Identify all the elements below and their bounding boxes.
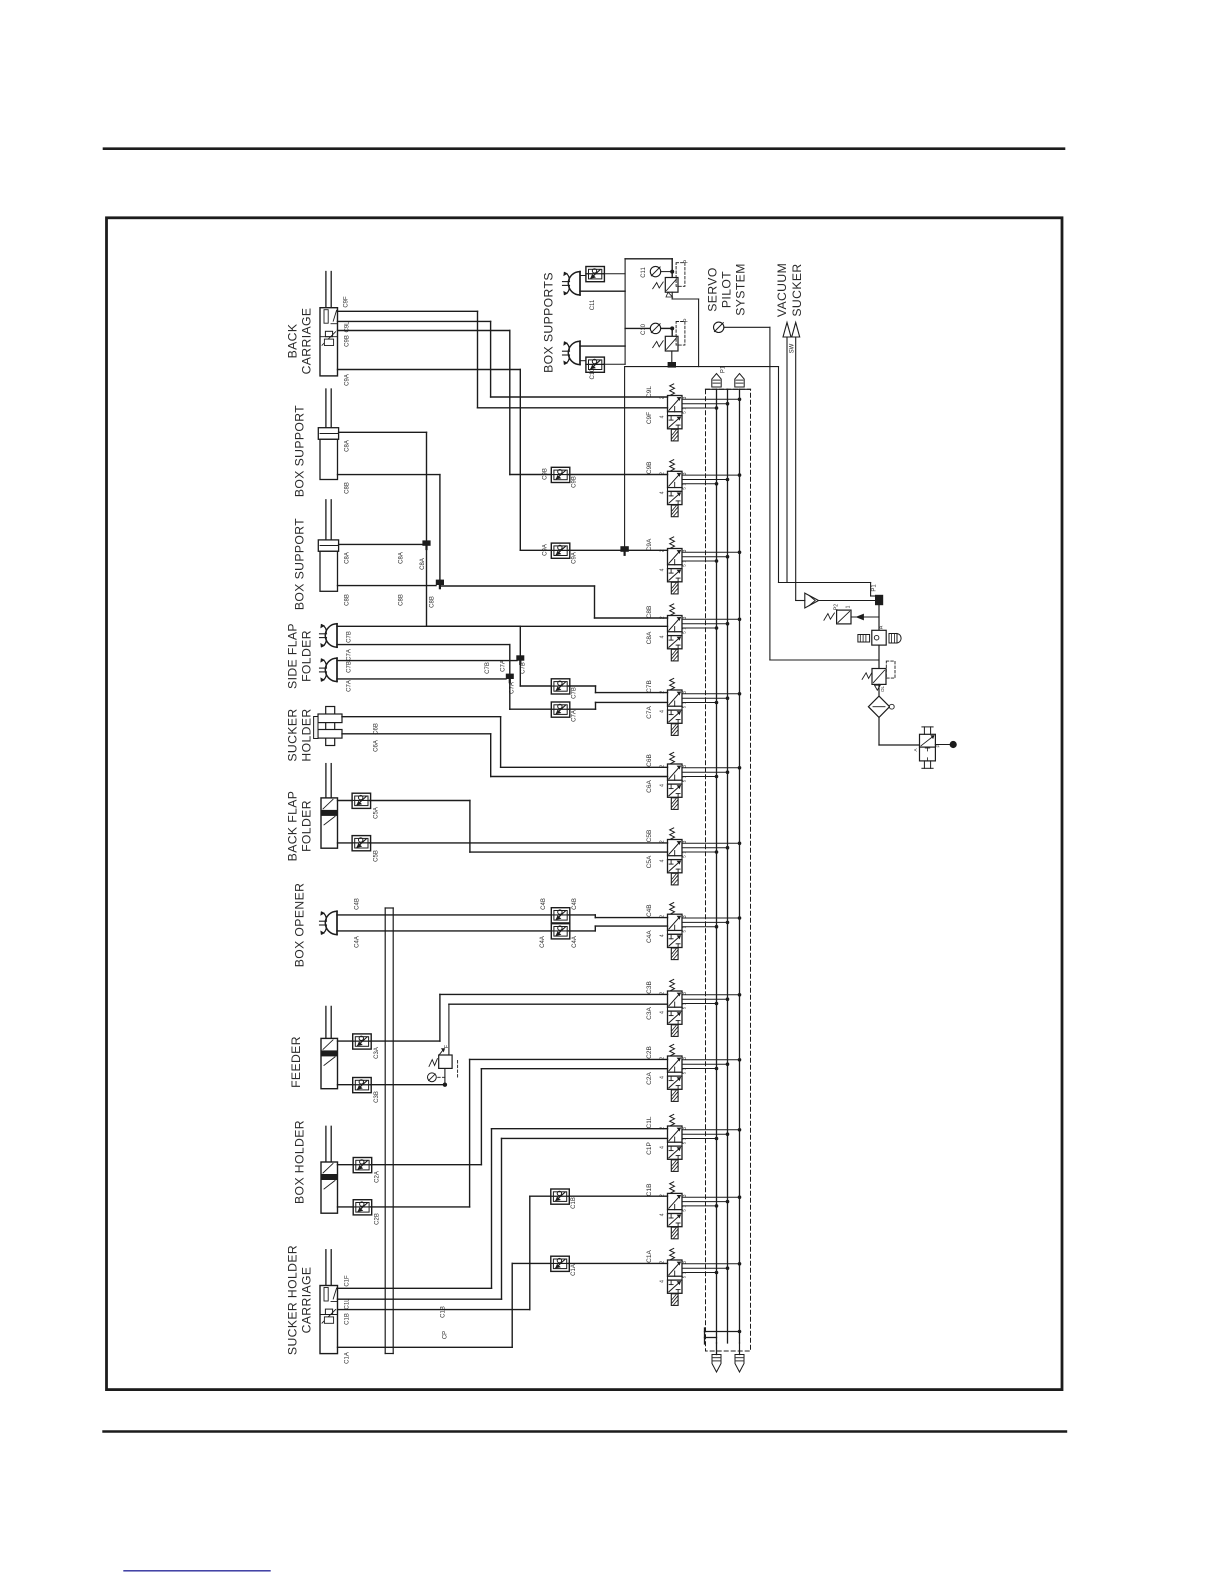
svg-text:CARRIAGE: CARRIAGE <box>300 1267 314 1334</box>
svg-text:4: 4 <box>660 934 666 937</box>
bottom rule <box>104 1430 1067 1432</box>
main line to shutoff valve <box>879 717 920 745</box>
wire C9B to valve <box>569 474 668 476</box>
svg-text:C7A: C7A <box>347 649 353 661</box>
wire C9B <box>338 331 552 475</box>
svg-text:C6B: C6B <box>374 723 380 735</box>
svg-text:C1A: C1A <box>571 1264 577 1276</box>
svg-text:C4B: C4B <box>572 898 578 910</box>
vacuum collector line <box>779 583 876 597</box>
valve C7B/C7A 5/2 <box>646 678 741 735</box>
svg-text:C8B: C8B <box>646 606 653 619</box>
svg-text:C4A: C4A <box>355 936 361 948</box>
svg-text:C3A: C3A <box>374 1047 380 1059</box>
svg-text:C9B: C9B <box>543 468 549 480</box>
wire C3A <box>370 994 667 1041</box>
svg-text:3: 3 <box>682 616 688 619</box>
cylinder C3 feeder <box>321 1006 338 1088</box>
svg-text:4: 4 <box>660 859 666 862</box>
svg-text:P2: P2 <box>834 604 840 610</box>
svg-text:C6A: C6A <box>646 780 653 793</box>
svg-text:C7A: C7A <box>646 706 653 719</box>
svg-text:C3B: C3B <box>646 981 653 994</box>
wire C7B to flow control <box>520 664 551 686</box>
valve C2B/C2A 5/2 <box>646 1044 741 1101</box>
svg-text:A: A <box>913 748 918 751</box>
svg-text:4: 4 <box>660 1146 666 1149</box>
svg-text:C4A: C4A <box>572 936 578 948</box>
wire C9A <box>338 370 552 551</box>
svg-text:4: 4 <box>660 1280 666 1283</box>
wire C4A to valve <box>569 926 668 931</box>
wire C4A <box>337 930 551 932</box>
svg-text:C3A: C3A <box>646 1007 653 1020</box>
svg-text:C2B: C2B <box>646 1046 653 1059</box>
valve C1A 5/2 <box>646 1248 741 1305</box>
wire C7A flowbox to valve <box>569 702 668 709</box>
svg-text:C7B: C7B <box>347 631 353 643</box>
supply terminal <box>935 741 956 748</box>
bus pressure line 2 <box>727 389 729 1343</box>
long rail pipe <box>385 908 393 1354</box>
wire C8B riser <box>338 475 668 618</box>
junction tee pilot manifold <box>668 362 676 368</box>
pilot valve C10 <box>653 318 690 351</box>
svg-text:C9A: C9A <box>543 544 549 556</box>
svg-text:C4B: C4B <box>355 898 361 910</box>
svg-text:3: 3 <box>682 1127 688 1130</box>
valve C1L/C1P 5/2 <box>646 1114 741 1171</box>
svg-text:P: P <box>684 259 690 263</box>
servo pilot line <box>724 327 879 660</box>
svg-text:C9B: C9B <box>646 461 653 474</box>
svg-text:1: 1 <box>846 605 852 608</box>
svg-text:C5B: C5B <box>646 830 653 843</box>
svg-text:4: 4 <box>660 491 666 494</box>
svg-text:C11: C11 <box>641 267 647 278</box>
svg-text:C7A: C7A <box>501 660 507 672</box>
wire C1F <box>338 1129 668 1289</box>
valve C9B 5/2 <box>646 460 741 517</box>
svg-text:SYSTEM: SYSTEM <box>734 263 748 316</box>
svg-text:SUCKER: SUCKER <box>790 263 804 316</box>
svg-text:C3B: C3B <box>374 1091 380 1103</box>
wire C1B <box>338 1196 551 1309</box>
pilot riser top <box>624 259 626 365</box>
svg-text:4: 4 <box>660 1011 666 1014</box>
svg-text:3: 3 <box>682 1194 688 1197</box>
flow control C9B <box>543 467 578 488</box>
wire C7B upper <box>337 626 520 656</box>
junction dot C3B regulator <box>443 1083 447 1087</box>
manifold enclosure (dashed) <box>706 389 751 1351</box>
flow control C9A <box>543 543 578 564</box>
svg-text:C1A: C1A <box>345 1352 351 1364</box>
flow control C10 <box>580 357 625 372</box>
svg-text:VACUUM: VACUUM <box>775 263 789 317</box>
valve C9L/C9F 5/2 <box>646 384 741 441</box>
svg-text:FOLDER: FOLDER <box>300 800 314 852</box>
cylinder C2 box holder <box>321 1126 338 1213</box>
svg-text:OL: OL <box>880 686 885 693</box>
svg-text:BOX OPENER: BOX OPENER <box>293 883 307 968</box>
cylinder C9 back carriage <box>320 272 338 376</box>
svg-text:C9A: C9A <box>572 552 578 564</box>
svg-text:3: 3 <box>682 765 688 768</box>
svg-text:C1P: C1P <box>646 1142 653 1155</box>
pressure regulator F on feeder line <box>428 1044 458 1085</box>
pressure switch branch <box>824 604 879 624</box>
svg-text:C9L: C9L <box>646 386 653 398</box>
wire C11 actuator <box>580 290 625 292</box>
svg-text:C5A: C5A <box>646 855 653 868</box>
wire C6A <box>342 734 668 777</box>
svg-text:C1B: C1B <box>571 1197 577 1209</box>
svg-text:C7B: C7B <box>572 687 578 699</box>
svg-text:C7A: C7A <box>347 680 353 692</box>
svg-text:C8B: C8B <box>345 482 351 494</box>
svg-text:C9B: C9B <box>572 476 578 488</box>
svg-text:C9F: C9F <box>646 412 653 424</box>
svg-text:4: 4 <box>660 415 666 418</box>
main line to regulator <box>878 645 880 668</box>
svg-text:SUCKER HOLDER: SUCKER HOLDER <box>286 1245 300 1355</box>
svg-text:3: 3 <box>682 915 688 918</box>
svg-text:FOLDER: FOLDER <box>300 630 314 682</box>
wire C1A to valve <box>568 1262 667 1264</box>
svg-text:C8A: C8A <box>398 552 404 564</box>
junction tee C7A <box>506 674 514 679</box>
flow control C11 <box>580 267 625 282</box>
flow control C5A <box>338 793 380 819</box>
svg-text:4: 4 <box>660 1213 666 1216</box>
svg-text:BOX SUPPORT: BOX SUPPORT <box>293 405 307 497</box>
svg-text:4: 4 <box>660 784 666 787</box>
svg-text:C9B: C9B <box>345 335 351 347</box>
svg-text:CP: CP <box>443 1331 449 1339</box>
pressure regulator <box>862 661 895 692</box>
wire C2B <box>371 1059 668 1207</box>
svg-text:C5A: C5A <box>374 807 380 819</box>
flow control C2A <box>338 1158 381 1183</box>
svg-text:4: 4 <box>660 710 666 713</box>
cylinder C8 box support upper <box>318 389 338 480</box>
svg-text:C6B: C6B <box>646 754 653 767</box>
footer blue link line <box>124 1570 270 1572</box>
svg-text:C9F: C9F <box>344 296 350 308</box>
svg-text:C2A: C2A <box>646 1072 653 1085</box>
flow control C4B <box>551 908 570 923</box>
svg-text:C8B: C8B <box>345 594 351 606</box>
wire C7A to flow control <box>510 682 552 709</box>
wire C3B regulator to valve <box>449 1004 668 1055</box>
svg-text:FEEDER: FEEDER <box>289 1036 303 1088</box>
svg-text:C2A: C2A <box>375 1171 381 1183</box>
svg-text:C4B: C4B <box>541 898 547 910</box>
pilot line to C9A valve <box>624 367 626 547</box>
exhaust muffler left <box>712 1355 721 1373</box>
wire C5A <box>370 801 668 853</box>
vacuum arrow SW <box>783 323 791 583</box>
flow control C3A <box>338 1034 381 1059</box>
svg-text:C9A: C9A <box>646 538 653 551</box>
svg-text:C6A: C6A <box>374 740 380 752</box>
wire C4B to valve <box>569 915 668 918</box>
bus pressure line 1 <box>716 389 718 1343</box>
svg-text:3: 3 <box>682 1261 688 1264</box>
wire C4B <box>337 914 551 916</box>
flow control C3B <box>338 1078 381 1103</box>
wire C10 feed <box>625 328 672 336</box>
svg-text:C8A: C8A <box>646 631 653 644</box>
svg-text:C11: C11 <box>590 299 596 310</box>
wire C10 actuator <box>580 345 625 347</box>
valve C5B/C5A 5/2 <box>646 828 741 885</box>
svg-text:C1L: C1L <box>646 1116 653 1128</box>
wire C9L <box>338 321 668 397</box>
servo pilot port symbol <box>714 322 724 332</box>
svg-text:C7B: C7B <box>347 661 353 673</box>
shutoff valve 3/2 <box>913 727 941 768</box>
svg-text:SW: SW <box>790 343 796 353</box>
cylinder C8 box support lower <box>318 500 338 592</box>
cylinder C1 carriage <box>320 1250 338 1354</box>
valve C9A 5/2 <box>646 537 741 594</box>
bus bottom manifold ties <box>704 1328 706 1344</box>
pilot valve C11 <box>653 259 690 297</box>
svg-text:PILOT: PILOT <box>720 271 734 308</box>
wire C6B <box>342 717 668 768</box>
svg-text:C1B: C1B <box>646 1184 653 1197</box>
wire C5B <box>370 842 668 844</box>
svg-text:C1B: C1B <box>345 1313 351 1325</box>
pilot manifold drop <box>778 367 780 583</box>
rotary actuator C11 <box>563 272 581 295</box>
svg-text:C4A: C4A <box>646 930 653 943</box>
wire C7A upper <box>337 645 510 675</box>
svg-text:C2B: C2B <box>375 1213 381 1225</box>
wire C7B lower <box>337 660 517 662</box>
junction tee P1 main <box>875 595 883 605</box>
lubricator FRL unit <box>858 625 901 645</box>
svg-text:C8B: C8B <box>398 594 404 606</box>
bus pressure line 3 <box>739 389 741 1343</box>
svg-text:4: 4 <box>660 635 666 638</box>
svg-text:C7B: C7B <box>646 680 653 693</box>
main supply line <box>878 605 880 630</box>
svg-text:BACK FLAP: BACK FLAP <box>286 791 300 862</box>
svg-text:C7A: C7A <box>572 710 578 722</box>
svg-text:C4A: C4A <box>540 936 546 948</box>
svg-text:C5B: C5B <box>374 850 380 862</box>
svg-text:SIDE FLAP: SIDE FLAP <box>286 623 300 689</box>
drawing frame border <box>107 218 1063 1390</box>
svg-text:C1A: C1A <box>646 1250 653 1263</box>
valve C4B/C4A 5/2 <box>646 903 741 960</box>
wire C1A <box>338 1263 551 1347</box>
rotary actuator C10 <box>563 341 581 364</box>
wire C8B join <box>338 585 437 587</box>
valve C6B/C6A 5/2 <box>646 752 741 809</box>
gripper actuator C6 <box>314 707 342 746</box>
svg-text:C7B: C7B <box>485 662 491 674</box>
filter separator <box>868 696 894 717</box>
svg-text:C8B: C8B <box>430 596 436 608</box>
main line to filter <box>878 684 880 696</box>
svg-text:C7B: C7B <box>521 662 527 674</box>
wire C1L <box>338 1138 668 1299</box>
flow control C1B <box>551 1189 577 1209</box>
svg-text:C9A: C9A <box>345 374 351 386</box>
svg-text:SERVO: SERVO <box>706 267 720 311</box>
flow control C1A <box>551 1256 577 1276</box>
svg-text:C1B: C1B <box>441 1306 447 1318</box>
svg-text:3: 3 <box>682 840 688 843</box>
svg-text:4: 4 <box>660 568 666 571</box>
svg-text:C8A: C8A <box>345 440 351 452</box>
rotary actuator C4 <box>320 911 338 934</box>
wire C11 output <box>672 292 698 366</box>
svg-text:P: P <box>684 318 690 322</box>
svg-text:3: 3 <box>682 992 688 995</box>
svg-text:3: 3 <box>682 396 688 399</box>
svg-text:C1F: C1F <box>345 1275 351 1287</box>
svg-text:P1: P1 <box>872 584 878 592</box>
svg-text:BOX HOLDER: BOX HOLDER <box>293 1120 307 1204</box>
svg-text:CARRIAGE: CARRIAGE <box>300 308 314 375</box>
junction tee C7B <box>516 655 524 660</box>
wire C2A <box>371 1069 668 1165</box>
flow control C7A <box>551 702 577 722</box>
svg-text:BOX SUPPORT: BOX SUPPORT <box>293 518 307 610</box>
plug C10 <box>641 323 670 335</box>
svg-text:BACK: BACK <box>286 324 300 359</box>
svg-text:3: 3 <box>682 549 688 552</box>
P1 supply symbol left <box>712 374 721 388</box>
svg-text:3: 3 <box>682 472 688 475</box>
wire C9A to valve <box>569 549 668 551</box>
exhaust muffler right <box>735 1355 744 1373</box>
svg-text:HOLDER: HOLDER <box>300 708 314 761</box>
junction tee C8B <box>436 580 444 585</box>
plug C11 <box>641 266 670 277</box>
rotary actuator C7 upper <box>320 624 338 647</box>
valve C8B/C8A 5/2 <box>646 604 741 661</box>
manifold top line <box>706 388 751 390</box>
valve C3B/C3A 5/2 <box>646 979 741 1036</box>
wire C1B to valve <box>568 1195 667 1197</box>
wire C3B <box>370 1084 445 1086</box>
venturi nozzle <box>796 593 875 608</box>
wire C7B flowbox to valve <box>569 686 668 693</box>
svg-text:C8A: C8A <box>345 552 351 564</box>
svg-text:3: 3 <box>682 1057 688 1060</box>
flow control C2B <box>338 1200 381 1225</box>
top rule <box>104 147 1064 150</box>
svg-text:C10: C10 <box>641 323 647 335</box>
junction tee pilot/C9A <box>620 546 628 552</box>
svg-text:3: 3 <box>682 691 688 694</box>
svg-text:BOX SUPPORTS: BOX SUPPORTS <box>542 272 556 373</box>
P1 supply symbol right <box>735 374 744 388</box>
pilot manifold line <box>625 366 778 368</box>
flow control C5B <box>338 836 380 862</box>
wire C9F <box>338 311 668 408</box>
vacuum arrow venturi <box>792 323 800 601</box>
flow control C7B <box>551 679 577 699</box>
svg-text:C8A: C8A <box>420 558 426 570</box>
wire C10 output <box>671 351 673 363</box>
svg-text:C4B: C4B <box>646 904 653 917</box>
flow control C4A <box>551 924 570 939</box>
wire C11 feed <box>625 259 672 278</box>
valve C1B 5/2 <box>646 1182 741 1239</box>
wire C8A join <box>339 543 423 545</box>
junction tee C8A <box>422 540 430 545</box>
rotary actuator C7 lower <box>320 658 338 681</box>
wire C7A lower <box>337 678 506 680</box>
cylinder C5 back flap <box>321 764 338 849</box>
wire C8A riser <box>339 432 668 626</box>
svg-text:SUCKER: SUCKER <box>286 708 300 761</box>
svg-text:4: 4 <box>660 1076 666 1079</box>
